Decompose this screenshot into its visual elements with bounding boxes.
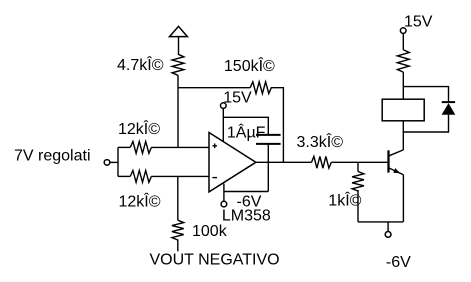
svg-text:15V: 15V xyxy=(223,90,252,107)
svg-text:15V: 15V xyxy=(404,14,433,31)
svg-text:3.3kÎ©: 3.3kÎ© xyxy=(297,132,344,151)
svg-text:7V regolati: 7V regolati xyxy=(14,148,91,165)
svg-text:-6V: -6V xyxy=(237,193,262,210)
svg-text:100k: 100k xyxy=(192,223,228,240)
svg-text:VOUT NEGATIVO: VOUT NEGATIVO xyxy=(150,251,280,268)
svg-text:1ÂµF: 1ÂµF xyxy=(227,123,266,142)
svg-text:1kÎ©: 1kÎ© xyxy=(328,191,361,210)
svg-text:12kÎ©: 12kÎ© xyxy=(119,192,161,211)
svg-text:-6V: -6V xyxy=(386,254,411,271)
svg-text:4.7kÎ©: 4.7kÎ© xyxy=(117,55,164,74)
svg-text:150kÎ©: 150kÎ© xyxy=(224,56,275,75)
svg-text:12kÎ©: 12kÎ© xyxy=(118,119,160,138)
